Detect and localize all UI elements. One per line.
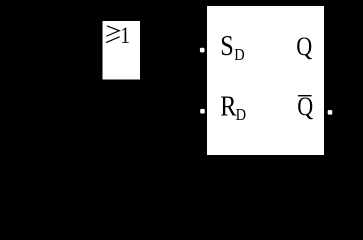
node R_D input terminal xyxy=(200,109,205,114)
node S_D input terminal xyxy=(200,48,205,53)
overbar of Q-bar output xyxy=(298,95,312,96)
OR gate U1 (IEC box symbol) xyxy=(103,21,141,80)
svg-text:Q: Q xyxy=(297,94,313,122)
svg-text:R: R xyxy=(220,90,236,122)
node Q-bar output terminal xyxy=(328,110,333,115)
svg-text:D: D xyxy=(236,106,246,124)
SR latch U2 body xyxy=(207,6,324,155)
svg-text:S: S xyxy=(220,29,233,61)
svg-text:1: 1 xyxy=(120,23,130,49)
label >=1 of OR gate U1 : greater-equal sign xyxy=(106,26,119,42)
svg-text:D: D xyxy=(234,46,244,64)
svg-text:Q: Q xyxy=(296,33,312,61)
